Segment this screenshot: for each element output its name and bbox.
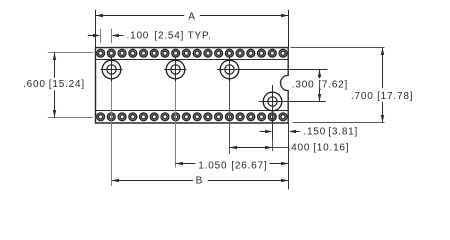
- pin contact bottom row #2: [107, 113, 115, 121]
- pin contact top row #2: [107, 49, 115, 57]
- svg-text:.400: .400: [288, 142, 311, 153]
- svg-text:.300: .300: [292, 79, 315, 90]
- pin contact top row #4: [129, 49, 137, 57]
- svg-text:[10.16]: [10.16]: [313, 142, 349, 153]
- extension line pin1 center (.100 dim): [100, 29, 102, 43]
- pin contact top row #17: [268, 49, 276, 57]
- pin contact bottom row #12: [215, 113, 223, 121]
- dimension .100 leader left with arrow: [88, 34, 101, 37]
- pin contact bottom row #15: [247, 113, 255, 121]
- pin contact bottom row #3: [118, 113, 126, 121]
- pin contact top row #16: [258, 49, 266, 57]
- dimension .400 line with arrows: [230, 146, 289, 149]
- svg-text:[15.24]: [15.24]: [49, 79, 85, 90]
- dimension 1.050 line with arrows: [176, 162, 289, 165]
- pin contact bottom row #7: [161, 113, 169, 121]
- dimension .300 line with arrows: [318, 70, 321, 102]
- extension line pin2 center (.100 dim): [111, 29, 113, 43]
- pin contact top row #12: [215, 49, 223, 57]
- pin contact top row #3: [118, 49, 126, 57]
- pin contact top row #11: [204, 49, 212, 57]
- svg-text:.150: .150: [303, 126, 326, 137]
- svg-text:B: B: [196, 176, 203, 187]
- extension line hole 4 center down (.150/.400 datum): [272, 139, 274, 151]
- pin contact bottom row #1: [97, 113, 105, 121]
- dimension .700 line with arrows: [381, 48, 384, 123]
- pin contact top row #15: [247, 49, 255, 57]
- dimension .150 arrows: [260, 130, 300, 133]
- pin contact top row #13: [225, 49, 233, 57]
- pin contact bottom row #18: [279, 113, 287, 121]
- pin contact top row #1: [97, 49, 105, 57]
- pin contact bottom row #6: [150, 113, 158, 121]
- mounting hole 4 with crosshair: [259, 85, 326, 139]
- svg-text:TYP.: TYP.: [188, 31, 212, 42]
- pin contact bottom row #10: [193, 113, 201, 121]
- extension line .600 top: [48, 52, 93, 54]
- pin contact bottom row #17: [268, 113, 276, 121]
- pin contact bottom row #9: [182, 113, 190, 121]
- mounting hole 1 with crosshair: [101, 57, 123, 82]
- socket body outline: [96, 48, 289, 123]
- extension line .700 top: [291, 47, 385, 49]
- extension line hole 3 center down (.400 datum): [229, 83, 231, 154]
- dimension A extension line left: [95, 10, 97, 47]
- dimension B line with arrows: [112, 179, 289, 182]
- extension line hole 1 center down (B datum): [111, 83, 113, 186]
- pin contact bottom row #14: [236, 113, 244, 121]
- pin contact top row #10: [193, 49, 201, 57]
- socket inner line top: [96, 59, 289, 61]
- pin contact top row #7: [161, 49, 169, 57]
- svg-text:A: A: [188, 12, 195, 23]
- svg-text:[2.54]: [2.54]: [154, 31, 184, 42]
- extension line .700 bottom: [293, 122, 385, 124]
- pin contact top row #5: [140, 49, 148, 57]
- svg-text:[3.81]: [3.81]: [328, 126, 358, 137]
- svg-text:.600: .600: [23, 79, 46, 90]
- dimension A line with arrows: [96, 14, 289, 17]
- pin contact bottom row #5: [140, 113, 148, 121]
- dimension .600 line with arrows: [53, 53, 56, 118]
- dimension A extension line right: [288, 10, 290, 47]
- pin contact bottom row #16: [258, 113, 266, 121]
- svg-text:[17.78]: [17.78]: [377, 91, 413, 102]
- pin contact top row #6: [150, 49, 158, 57]
- extension line .600 bottom: [48, 117, 93, 119]
- svg-text:[7.62]: [7.62]: [318, 79, 348, 90]
- extension line hole 2 center down (1.050 datum): [175, 83, 177, 168]
- svg-text:.700: .700: [351, 91, 374, 102]
- socket inner line bottom: [96, 110, 289, 112]
- svg-text:[26.67]: [26.67]: [231, 160, 267, 171]
- extension line right edge down: [288, 123, 290, 190]
- pin contact top row #9: [182, 49, 190, 57]
- pin contact top row #8: [172, 49, 180, 57]
- pin contact bottom row #11: [204, 113, 212, 121]
- pin contact top row #14: [236, 49, 244, 57]
- svg-text:1.050: 1.050: [198, 160, 227, 171]
- mounting hole 3 with crosshair: [217, 57, 328, 83]
- pin contact bottom row #13: [225, 113, 233, 121]
- dimension .100 leader right with arrow: [112, 34, 124, 37]
- pin contact top row #18: [279, 49, 287, 57]
- pin contact bottom row #4: [129, 113, 137, 121]
- mounting hole 2 with crosshair: [164, 57, 187, 82]
- pin contact bottom row #8: [172, 113, 180, 121]
- svg-text:.100: .100: [127, 31, 150, 42]
